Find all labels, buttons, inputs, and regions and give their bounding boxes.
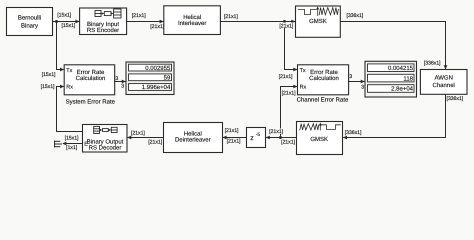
icon GMSK demod FM wave, arrow, square wave	[300, 124, 341, 130]
junction node at Bernoulli output	[55, 20, 58, 23]
svg-text:Binary Input: Binary Input	[87, 21, 119, 28]
block AWGN Channel	[420, 70, 467, 95]
wire Helical Interleaver to GMSK mod	[220, 20, 295, 24]
block Display1	[126, 62, 174, 95]
svg-text:[21x1]: [21x1]	[281, 140, 295, 146]
svg-text:118: 118	[403, 75, 413, 82]
block GMSK modulator	[296, 6, 341, 37]
block Channel Error Rate calculation	[298, 65, 349, 95]
wire RS Encoder to Helical Interleaver	[127, 20, 164, 24]
svg-text:[21x1]: [21x1]	[279, 23, 293, 29]
svg-text:Error Rate: Error Rate	[310, 69, 338, 76]
svg-text:3: 3	[115, 76, 118, 82]
svg-text:Channel Error Rate: Channel Error Rate	[297, 96, 349, 103]
label [21x1] on channel Rx wire	[281, 90, 297, 97]
svg-text:[21x1]: [21x1]	[150, 24, 164, 30]
block Bernoulli Binary	[7, 8, 53, 36]
svg-text:[21x1]: [21x1]	[224, 14, 238, 20]
wire Channel Error Rate to Display2	[349, 80, 365, 84]
svg-text:Rx: Rx	[300, 85, 307, 91]
svg-text:0.004215: 0.004215	[388, 65, 414, 72]
svg-text:3: 3	[361, 84, 364, 90]
svg-text:Tx: Tx	[300, 68, 306, 74]
svg-text:Tx: Tx	[66, 68, 72, 74]
block Display2	[365, 61, 417, 97]
wire branch down to System Error Rate Tx	[57, 22, 65, 72]
svg-text:z: z	[250, 135, 254, 142]
wire Bernoulli to RS Encoder	[53, 20, 80, 24]
svg-text:59: 59	[164, 75, 171, 82]
label [21x1] below GMSK mod input	[279, 23, 295, 30]
block Binary Input RS Encoder	[80, 8, 127, 35]
svg-text:[21x1]: [21x1]	[282, 91, 296, 97]
svg-text:-5: -5	[256, 132, 261, 138]
svg-text:Calculation: Calculation	[76, 75, 106, 82]
svg-text:[15x1]: [15x1]	[61, 23, 75, 29]
svg-text:RS Encoder: RS Encoder	[87, 27, 119, 34]
svg-text:System Error Rate: System Error Rate	[66, 98, 116, 105]
svg-text:Calculation: Calculation	[309, 75, 339, 82]
terminator ground symbol	[55, 141, 62, 147]
svg-text:[15x1]: [15x1]	[41, 84, 55, 90]
block Binary Output RS Decoder	[83, 125, 128, 153]
svg-text:AWGN: AWGN	[434, 74, 452, 81]
svg-text:1.996e+04: 1.996e+04	[142, 84, 171, 91]
svg-text:Helical: Helical	[183, 14, 201, 21]
svg-text:Rx: Rx	[66, 85, 73, 91]
svg-text:Channel: Channel	[433, 82, 455, 89]
svg-text:Binary: Binary	[21, 22, 38, 29]
svg-text:GMSK: GMSK	[310, 136, 328, 143]
wire RS Decoder out1 to System Error Rate Rx	[57, 85, 83, 132]
svg-text:[21x1]: [21x1]	[227, 138, 241, 144]
junction node demod output branch	[279, 136, 282, 139]
svg-text:Helical: Helical	[184, 131, 202, 138]
label [21x1] on channel Tx wire	[278, 73, 294, 80]
svg-text:Interleaver: Interleaver	[178, 20, 206, 27]
wire RS Decoder Err to Terminator	[62, 142, 82, 146]
wire z-5 to Helical Deinterleaver	[222, 136, 246, 140]
svg-text:[336x1]: [336x1]	[446, 96, 463, 102]
wire GMSK mod to AWGN Channel	[341, 22, 448, 70]
junction node interleaver output branch	[283, 20, 286, 23]
svg-text:[336x1]: [336x1]	[346, 13, 363, 19]
svg-text:RS Decoder: RS Decoder	[89, 145, 122, 152]
svg-text:[21x1]: [21x1]	[269, 129, 283, 135]
wire branch down to Channel Error Rate Tx	[285, 22, 298, 72]
block System Error Rate calculation	[64, 65, 115, 95]
wire Helical Deinterleaver to RS Decoder	[127, 136, 163, 140]
icon RS encoder shift registers	[95, 9, 121, 18]
svg-text:[1x1]: [1x1]	[66, 145, 78, 151]
svg-text:3: 3	[121, 84, 124, 90]
block Helical Deinterleaver	[164, 123, 223, 153]
svg-text:[21x1]: [21x1]	[148, 139, 162, 145]
svg-text:[21x1]: [21x1]	[132, 13, 146, 19]
svg-text:[21x1]: [21x1]	[279, 74, 293, 80]
svg-text:[336x1]: [336x1]	[345, 130, 362, 136]
label [21x1] above z-5 input	[268, 129, 284, 136]
svg-text:0.002955: 0.002955	[145, 65, 171, 72]
svg-text:GMSK: GMSK	[309, 18, 327, 25]
block GMSK demodulator	[297, 122, 343, 155]
svg-text:Error Rate: Error Rate	[77, 69, 105, 76]
svg-text:[21x1]: [21x1]	[131, 130, 145, 136]
svg-text:2.8e+04: 2.8e+04	[391, 86, 414, 93]
wire GMSK demod to delay z-5	[266, 136, 297, 140]
svg-text:Deinterleaver: Deinterleaver	[175, 137, 211, 144]
svg-text:Binary Output: Binary Output	[87, 138, 124, 145]
icon RS decoder shift registers	[94, 126, 117, 133]
wire System Error Rate to Display1	[115, 80, 126, 84]
block Helical Interleaver	[164, 6, 221, 35]
wire AWGN Channel to GMSK demod	[343, 95, 446, 140]
svg-text:[21x1]: [21x1]	[225, 128, 239, 134]
wire branch up to Channel Error Rate Rx	[281, 85, 298, 138]
svg-text:[15x1]: [15x1]	[65, 135, 79, 141]
svg-text:[15x1]: [15x1]	[42, 72, 56, 78]
svg-text:3: 3	[349, 74, 352, 80]
svg-text:Bernoulli: Bernoulli	[18, 15, 41, 22]
svg-text:[15x1]: [15x1]	[57, 12, 71, 18]
icon GMSK mod square wave, arrow, FM wave	[299, 8, 339, 16]
svg-text:[336x1]: [336x1]	[424, 61, 441, 67]
block delay z^-5	[247, 128, 266, 148]
